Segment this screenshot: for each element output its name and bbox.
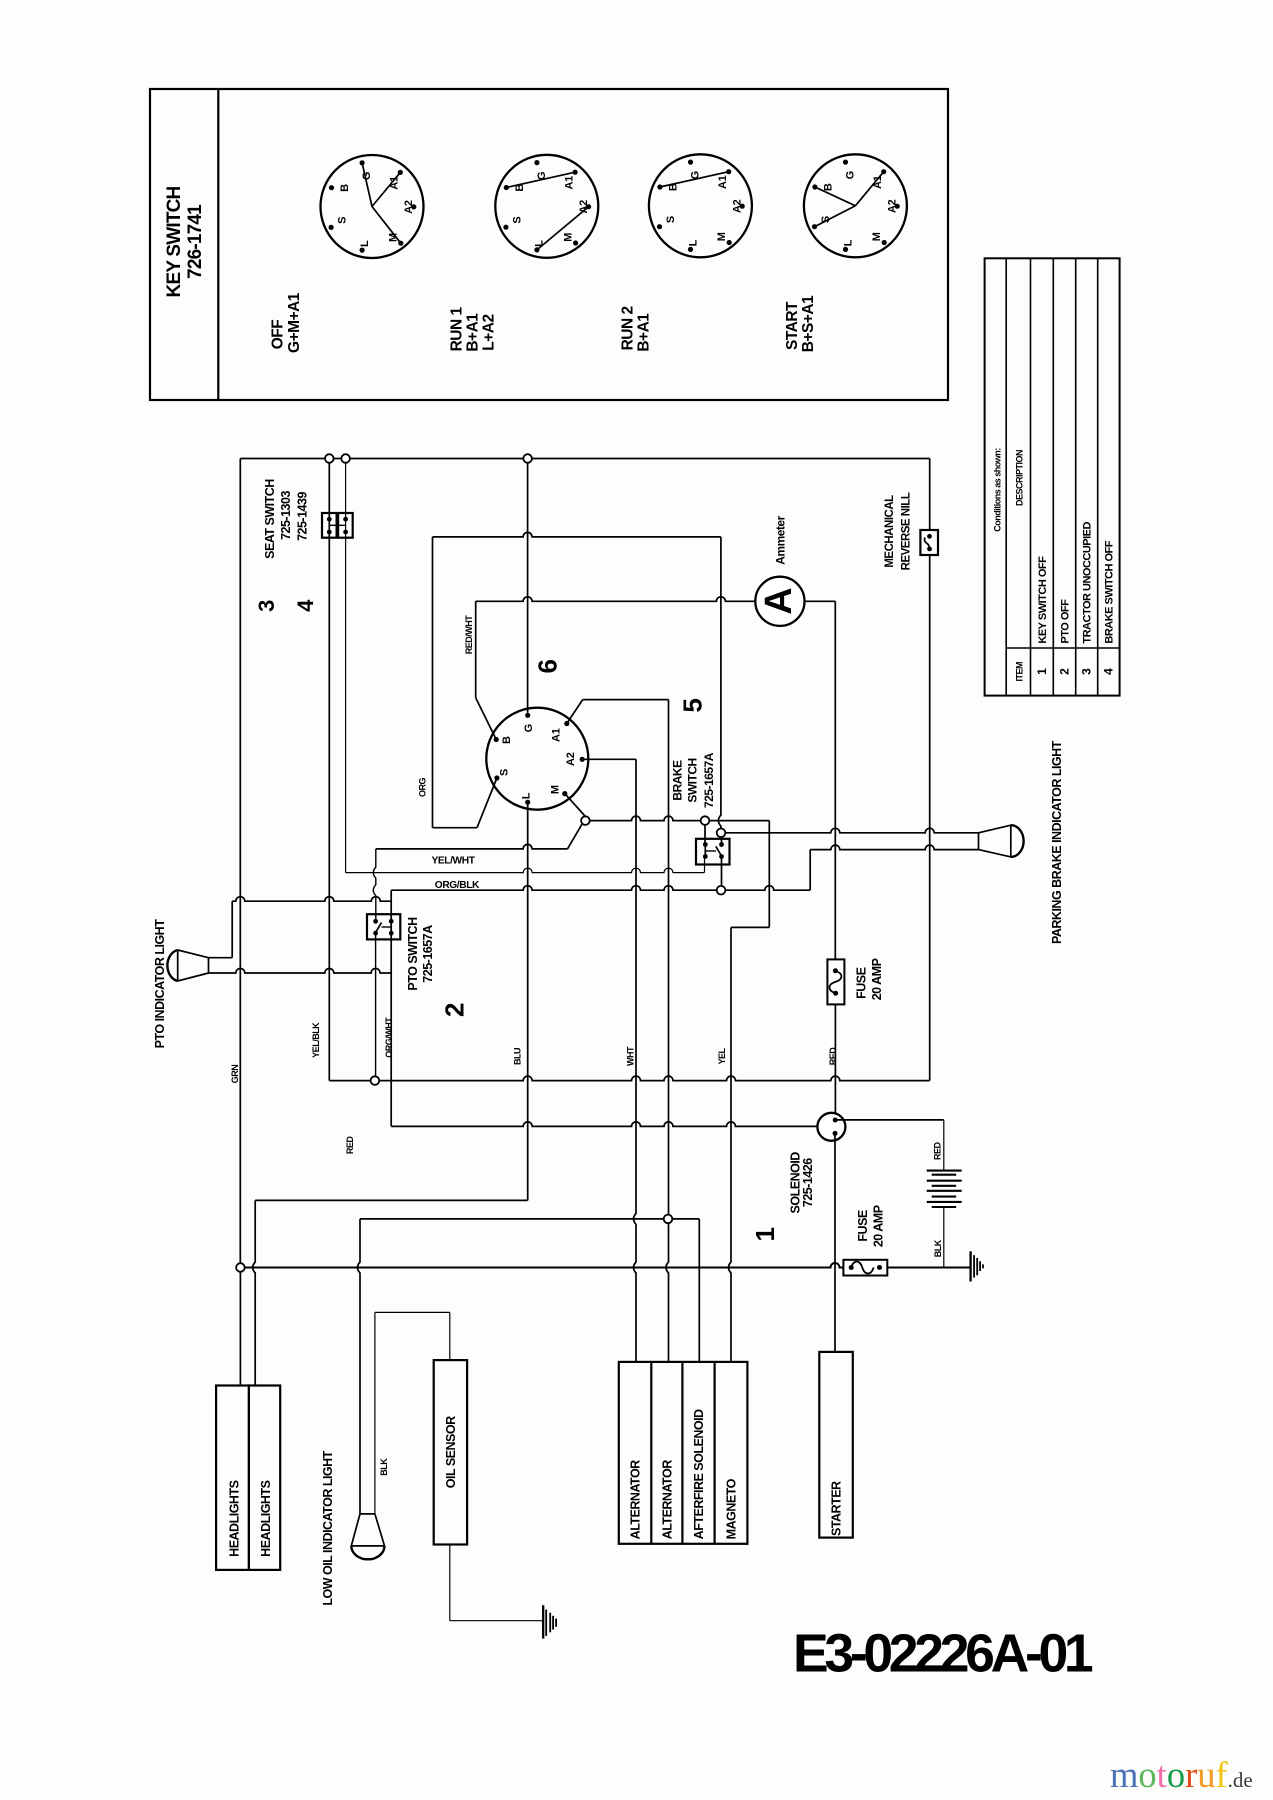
svg-text:Conditions as shown:: Conditions as shown: [993, 448, 1003, 532]
svg-text:KEY SWITCH: KEY SWITCH [164, 186, 185, 297]
contact line B-A1 (RUN 1) [506, 172, 575, 187]
svg-text:PARKING BRAKE INDICATOR LIGHT: PARKING BRAKE INDICATOR LIGHT [1050, 740, 1064, 944]
wire: battery BLK lead [943, 1207, 945, 1268]
fuse 2 left pin [849, 1265, 854, 1270]
table column divider (ITEM/DESCRIPTION) [1006, 647, 1119, 649]
wire: ORG horizontal at S terminal [433, 827, 478, 829]
svg-text:BLU: BLU [513, 1048, 523, 1065]
seat switch pin 2b [343, 530, 348, 535]
wire: ammeter to fuse corner [805, 600, 836, 602]
fuse 2 right pin [877, 1265, 882, 1270]
fuse 1 element [829, 971, 841, 993]
wire: solenoid to battery top lead [835, 1119, 944, 1121]
wire: B terminal diagonal [476, 698, 497, 740]
wire: BLU to headlight 2 [253, 1200, 256, 1385]
wire: horizontal at 848.9 (M node feed) [376, 844, 568, 849]
node: M terminal junction [581, 816, 590, 825]
svg-text:G+M+A1: G+M+A1 [286, 292, 303, 353]
key switch (main schematic) circle [486, 708, 588, 810]
wire: parking brake light upper lead [725, 828, 978, 833]
fuse 2 box (20 amp) [843, 1260, 887, 1276]
table row divider 5 [1097, 258, 1099, 695]
svg-text:START: START [784, 301, 801, 350]
node: ORG/WHT junction on bus [371, 1076, 380, 1085]
svg-text:BLK: BLK [933, 1239, 943, 1257]
key switch legend divider [217, 89, 219, 400]
svg-text:STARTER: STARTER [830, 1481, 844, 1536]
key switch position circle RUN 1 [495, 155, 598, 258]
svg-text:YEL/BLK: YEL/BLK [311, 1022, 321, 1058]
PTO switch pin TL [373, 919, 378, 924]
wire: YEL/WHT rise into brake switch pin [704, 857, 706, 873]
svg-text:725-1303: 725-1303 [279, 491, 293, 540]
svg-text:L: L [842, 239, 854, 246]
node: seat switch wire 1 junction [325, 454, 334, 463]
svg-text:B: B [822, 183, 834, 191]
fuse 2 element [851, 1262, 873, 1274]
contact line c-M (OFF) [372, 207, 401, 244]
fuse 1 box (20 amp) [827, 959, 844, 1004]
ground symbol (battery) [969, 1251, 971, 1281]
terminal dot M (START) [882, 240, 887, 245]
svg-text:A2: A2 [732, 199, 744, 213]
brake switch pin BL [703, 854, 708, 859]
wire: ORG vertical riser [432, 537, 434, 828]
solenoid circle [817, 1113, 845, 1141]
terminal dot A1 (OFF) [398, 170, 403, 175]
svg-text:ITEM: ITEM [1015, 662, 1025, 682]
wire: afterfire solenoid vertical [698, 1219, 700, 1362]
svg-text:4: 4 [1102, 668, 1116, 675]
wire: PTO switch pin column / loop left edge [390, 890, 392, 1126]
wire: diagonal from M node to RED line [568, 824, 582, 849]
svg-text:PTO OFF: PTO OFF [1060, 599, 1072, 644]
svg-text:20 AMP: 20 AMP [870, 958, 884, 1000]
wire: PTO light top lead [209, 957, 233, 959]
terminal dot B (RUN 2) [657, 184, 662, 189]
svg-text:SWITCH: SWITCH [686, 758, 700, 802]
wire: BLU vertical (L terminal) [527, 802, 529, 1200]
contact line B-c (START) [815, 187, 856, 206]
table row divider 2 [1030, 258, 1032, 695]
terminal dot L (OFF) [360, 248, 365, 253]
svg-text:RED: RED [933, 1141, 943, 1160]
node: alternator junction [664, 1215, 673, 1224]
wire: YEL/WHT horizontal to brake switch [346, 868, 705, 873]
wire: low oil lamp feed horizontal [360, 1218, 699, 1220]
terminal dot A2 (OFF) [411, 204, 416, 209]
svg-text:L+A2: L+A2 [481, 314, 498, 350]
seat switch pin 1b [327, 530, 332, 535]
engine block divider 3 [713, 1362, 715, 1544]
svg-text:GRN: GRN [230, 1065, 240, 1084]
svg-text:E3-02226A-01: E3-02226A-01 [793, 1625, 1093, 1684]
svg-text:2: 2 [439, 1003, 469, 1017]
headlights box 2 [249, 1386, 280, 1570]
svg-text:ALTERNATOR: ALTERNATOR [661, 1460, 675, 1539]
key switch terminal L [525, 800, 530, 805]
terminal dot A1 (START) [881, 169, 886, 174]
wire: low oil lamp right lead [374, 1312, 376, 1514]
wire: oil sensor drop [449, 1312, 451, 1360]
terminal dot G (RUN 2) [688, 160, 693, 165]
key switch position circle RUN 2 [649, 154, 752, 257]
wire: YEL/WHT seat switch 2 vertical [345, 463, 347, 873]
seat switch connector box 1 [322, 513, 337, 538]
svg-text:DESCRIPTION: DESCRIPTION [1015, 450, 1025, 506]
svg-text:PTO INDICATOR LIGHT: PTO INDICATOR LIGHT [153, 919, 167, 1049]
svg-text:725-1426: 725-1426 [801, 1158, 815, 1207]
wire: brake switch feed vertical [718, 537, 721, 829]
svg-text:M: M [562, 233, 574, 242]
key switch position circle OFF [321, 155, 424, 258]
engine block divider 2 [681, 1362, 683, 1544]
svg-text:MAGNETO: MAGNETO [725, 1478, 739, 1539]
key switch terminal M [562, 791, 567, 796]
key switch terminal A1 [564, 721, 569, 726]
wire: right border top section [929, 459, 931, 531]
fuse 1 top pin [833, 968, 838, 973]
seat switch pin 1a [327, 517, 332, 522]
svg-text:FUSE: FUSE [855, 967, 869, 999]
ammeter circle [755, 577, 804, 626]
svg-text:RED: RED [828, 1047, 838, 1066]
terminal dot L (START) [843, 247, 848, 252]
node: brake switch top junction [701, 816, 710, 825]
wire: PTO light bottom lead [209, 969, 392, 974]
terminal dot S (RUN 1) [503, 225, 508, 230]
engine block divider 1 [650, 1362, 652, 1544]
svg-text:PTO SWITCH: PTO SWITCH [406, 917, 420, 991]
wire: brake switch BR pin down to node [721, 857, 723, 886]
svg-text:OFF: OFF [270, 320, 287, 350]
key switch position circle START [804, 154, 907, 257]
starter box [819, 1352, 853, 1538]
key switch legend box [150, 89, 948, 400]
svg-text:726-1741: 726-1741 [185, 204, 206, 279]
svg-text:B: B [501, 736, 513, 744]
wire: brake bypass horizontal [731, 926, 769, 928]
svg-text:HEADLIGHTS: HEADLIGHTS [259, 1480, 273, 1556]
node: brake switch feed junction [717, 829, 726, 838]
wire: key switch G vertical [527, 463, 529, 713]
svg-text:M: M [871, 232, 883, 241]
svg-text:M: M [716, 232, 728, 241]
brake switch pin TL [703, 842, 708, 847]
svg-text:5: 5 [677, 699, 707, 713]
wire: fuse 1 to solenoid [834, 1004, 836, 1120]
svg-text:WHT: WHT [626, 1046, 636, 1066]
wire: RED fuse feed vertical [834, 601, 836, 959]
terminal dot A1 (RUN 2) [726, 169, 731, 174]
terminal dot B (OFF) [329, 185, 334, 190]
wire: A1 vertical (to alternator) [666, 700, 669, 1362]
svg-text:L: L [687, 239, 699, 246]
wire: PTO pin vertical upper [373, 849, 376, 921]
wire: oil sensor ground horizontal [450, 1620, 543, 1622]
svg-text:BLK: BLK [379, 1458, 389, 1476]
ground symbol (oil sensor) [542, 1605, 544, 1638]
terminal dot M (OFF) [398, 241, 403, 246]
terminal dot G (OFF) [360, 160, 365, 165]
reverse switch pin top [927, 534, 932, 539]
contact line S-c (START) [815, 206, 856, 227]
svg-text:725-1657A: 725-1657A [421, 925, 435, 983]
terminal dot A2 (RUN 2) [740, 204, 745, 209]
solenoid pin top [833, 1118, 838, 1123]
svg-text:1: 1 [1035, 668, 1049, 675]
svg-text:AFTERFIRE SOLENOID: AFTERFIRE SOLENOID [692, 1409, 706, 1539]
wire: PTO light top riser [231, 901, 233, 958]
svg-text:RED: RED [345, 1136, 355, 1155]
svg-text:1: 1 [750, 1227, 780, 1241]
headlights box 1 [216, 1386, 249, 1570]
svg-text:G: G [523, 724, 535, 732]
svg-text:4: 4 [293, 599, 318, 612]
node: seat switch wire 2 junction [341, 454, 350, 463]
wire: A2 horizontal [582, 758, 636, 760]
wire: ORG horizontal upper [433, 532, 721, 537]
wire: brake pin vertical [704, 825, 706, 845]
low oil indicator bulb [351, 1514, 384, 1546]
contact line c-A1 (OFF) [372, 172, 400, 206]
terminal dot S (OFF) [329, 225, 334, 230]
svg-text:S: S [499, 769, 511, 776]
wire: oil sensor link horizontal [375, 1311, 450, 1313]
reverse switch pin bottom [927, 547, 932, 552]
svg-text:S: S [337, 217, 349, 224]
terminal dot G (RUN 1) [534, 160, 539, 165]
key switch terminal G [525, 713, 530, 718]
svg-text:FUSE: FUSE [856, 1210, 870, 1242]
terminal dot A2 (START) [895, 204, 900, 209]
svg-text:G: G [844, 171, 856, 179]
svg-text:A1: A1 [550, 728, 562, 742]
svg-text:A2: A2 [565, 752, 577, 766]
wire: low oil lamp left lead [358, 1219, 361, 1514]
engine connector block [619, 1362, 748, 1544]
terminal dot S (RUN 2) [657, 224, 662, 229]
terminal dot L (RUN 2) [688, 247, 693, 252]
svg-text:RED/WHT: RED/WHT [464, 615, 474, 654]
svg-text:B+A1: B+A1 [465, 313, 482, 352]
svg-text:L: L [359, 240, 371, 247]
wire: A1 diagonal [567, 700, 583, 724]
wire: ORG/WHT PTO pin vertical lower [375, 933, 377, 1080]
svg-text:ORG: ORG [417, 778, 427, 798]
svg-text:M: M [549, 785, 561, 794]
svg-text:KEY SWITCH OFF: KEY SWITCH OFF [1037, 556, 1049, 644]
svg-text:A: A [758, 588, 800, 615]
svg-text:LOW OIL INDICATOR LIGHT: LOW OIL INDICATOR LIGHT [321, 1450, 335, 1605]
wire: A1 horizontal [583, 699, 669, 701]
svg-text:RUN 2: RUN 2 [620, 306, 637, 350]
conditions table outer box [985, 258, 1120, 695]
svg-text:MECHANICAL: MECHANICAL [884, 495, 896, 568]
wire: battery RED lead [943, 1120, 945, 1171]
svg-text:A1: A1 [717, 175, 729, 189]
PTO switch pin BL [373, 931, 378, 936]
svg-text:RUN 1: RUN 1 [449, 307, 466, 352]
wire: solenoid to starter vertical [834, 1133, 836, 1352]
svg-text:SEAT SWITCH: SEAT SWITCH [263, 479, 277, 559]
wire: parking brake light lower lead [810, 845, 978, 849]
svg-text:A2: A2 [403, 200, 415, 214]
battery plates [927, 1170, 962, 1172]
svg-text:S: S [665, 216, 677, 223]
wire: right border below reverse switch [929, 555, 931, 1081]
mechanical reverse nill switch box [920, 530, 938, 555]
table row divider 3 [1052, 258, 1054, 695]
PTO switch lever [376, 923, 382, 933]
svg-text:TRACTOR UNOCCUPIED: TRACTOR UNOCCUPIED [1082, 521, 1094, 643]
node: key switch G wire junction [523, 454, 532, 463]
PTO switch connector box [367, 914, 400, 939]
wire: YEL vertical (to magneto) [729, 927, 732, 1362]
svg-text:YEL/WHT: YEL/WHT [432, 856, 476, 867]
wire: YEL/BLK seat switch 1 vertical [328, 463, 330, 1081]
terminal dot B (RUN 1) [504, 185, 509, 190]
seat switch crossbar [329, 524, 345, 526]
wire: ground bus horizontal [245, 1263, 971, 1268]
key switch terminal A2 [580, 757, 585, 762]
svg-text:6: 6 [532, 659, 562, 673]
wire: S terminal diagonal [477, 778, 497, 828]
brake switch pin BR [719, 854, 724, 859]
fuse 1 bottom pin [833, 991, 838, 996]
key switch terminal S [494, 775, 499, 780]
terminal dot L (RUN 1) [534, 247, 539, 252]
table row divider 1 [1005, 258, 1007, 695]
wire: parking brake light lower riser [809, 850, 811, 891]
contact line L-A2 (RUN 1) [537, 207, 589, 250]
seat switch connector box 2 [338, 513, 353, 538]
wire: bottom bus (to right border) [329, 1076, 929, 1081]
svg-text:S: S [512, 217, 524, 224]
svg-text:A1: A1 [563, 176, 575, 190]
reverse switch lever [925, 538, 930, 549]
svg-text:ORG/WHT: ORG/WHT [384, 1017, 394, 1058]
node: ground bus left junction [236, 1263, 245, 1272]
wire: RED/WHT vertical [475, 601, 477, 698]
wire: BLU horizontal return [255, 1199, 528, 1201]
svg-text:A2: A2 [887, 199, 899, 213]
key switch terminal B [494, 737, 499, 742]
brake switch interior link [704, 845, 706, 857]
solenoid pin bottom [833, 1131, 838, 1136]
svg-text:ORG/BLK: ORG/BLK [435, 880, 480, 891]
svg-text:BRAKE SWITCH OFF: BRAKE SWITCH OFF [1104, 540, 1116, 643]
parking brake indicator light bulb [979, 825, 1011, 857]
svg-text:L: L [521, 792, 533, 799]
wire: ORG/BLK right of node to riser [725, 886, 810, 891]
node: brake switch bottom junction [717, 886, 726, 895]
oil sensor box [434, 1360, 467, 1544]
svg-text:REVERSE NILL: REVERSE NILL [901, 492, 913, 570]
svg-text:BRAKE: BRAKE [671, 760, 685, 801]
svg-text:YEL: YEL [717, 1048, 727, 1065]
svg-text:OIL SENSOR: OIL SENSOR [444, 1416, 458, 1488]
wire: top supply bus [240, 458, 929, 460]
wire: oil sensor ground drop [449, 1545, 451, 1621]
table row divider 4 [1075, 258, 1077, 695]
svg-text:B+A1: B+A1 [636, 313, 653, 352]
brake switch box [696, 839, 730, 865]
wire: brake switch TR pin up to node [721, 837, 723, 845]
wire: WHT vertical (A2 to alternator) [634, 759, 637, 1362]
svg-text:725-1657A: 725-1657A [702, 752, 716, 808]
svg-text:G: G [361, 172, 373, 180]
svg-text:725-1439: 725-1439 [296, 492, 310, 541]
svg-text:HEADLIGHTS: HEADLIGHTS [228, 1480, 242, 1556]
wire: M node line to brake switch [590, 816, 769, 821]
svg-text:2: 2 [1058, 668, 1072, 675]
terminal dot M (RUN 2) [727, 240, 732, 245]
PTO switch contact bar [382, 926, 392, 928]
terminal dot S (START) [812, 224, 817, 229]
wire: brake bypass vertical [768, 821, 770, 928]
wire: M terminal diagonal [565, 794, 586, 817]
PTO indicator light bulb [178, 950, 209, 981]
wire: headlight 1 lead [239, 1272, 241, 1386]
PTO switch pin TR [389, 919, 394, 924]
svg-text:20 AMP: 20 AMP [872, 1205, 886, 1247]
terminal dot M (RUN 1) [573, 240, 578, 245]
PTO switch pin BR [389, 931, 394, 936]
brake switch pin TR [719, 842, 724, 847]
contact line B-A1 (RUN 2) [660, 172, 729, 187]
terminal dot B (START) [812, 184, 817, 189]
svg-text:Ammeter: Ammeter [773, 515, 787, 564]
svg-text:ALTERNATOR: ALTERNATOR [629, 1460, 643, 1539]
wire: loop bottom to solenoid [391, 1122, 817, 1127]
wire: left border (GRN) down to headlights junction [239, 459, 241, 1264]
svg-text:B: B [339, 184, 351, 192]
svg-text:3: 3 [254, 600, 279, 612]
wire: PTO light top horizontal [232, 897, 391, 901]
contact line c-A1 (START) [855, 172, 883, 206]
contact line c-G (OFF) [362, 163, 372, 207]
brake switch contact bar [705, 850, 716, 852]
svg-text:motoruf.de: motoruf.de [1110, 1754, 1253, 1795]
terminal dot A2 (RUN 1) [586, 204, 591, 209]
wire: RED/WHT horizontal to ammeter [476, 597, 756, 602]
svg-text:B+S+A1: B+S+A1 [800, 295, 817, 352]
seat switch pin 2a [343, 517, 348, 522]
terminal dot G (START) [843, 160, 848, 165]
terminal dot A1 (RUN 1) [573, 170, 578, 175]
svg-text:3: 3 [1080, 668, 1094, 675]
brake switch lever [716, 846, 722, 856]
wire: ORG/BLK horizontal [391, 886, 717, 891]
